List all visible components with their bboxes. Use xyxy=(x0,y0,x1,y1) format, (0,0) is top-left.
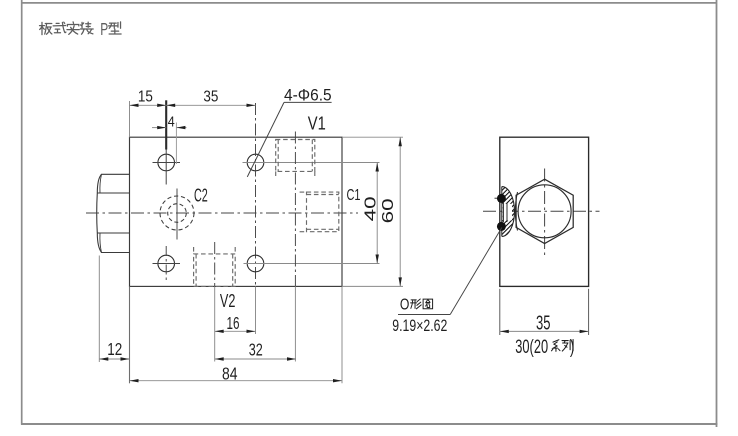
port C1 dashed bore xyxy=(300,192,339,232)
end view centerlines xyxy=(483,210,600,212)
valve block outline xyxy=(130,137,343,286)
svg-text:C2: C2 xyxy=(194,185,208,205)
svg-text:O: O xyxy=(400,296,410,313)
dimension 32 xyxy=(215,358,296,360)
dimension 4 xyxy=(152,127,166,129)
port V1 dashed bore xyxy=(276,140,315,179)
svg-text:40: 40 xyxy=(363,196,380,221)
dimension 12 xyxy=(99,358,129,360)
end view body xyxy=(500,137,589,286)
dimension 35 xyxy=(166,104,175,107)
main horizontal centerline xyxy=(86,212,358,214)
leader O形圈 9.19×2.62 xyxy=(450,228,502,315)
svg-text:30(20: 30(20 xyxy=(515,336,548,358)
port C2 dashed circles xyxy=(160,196,194,230)
svg-text:4: 4 xyxy=(168,114,175,131)
title 板式安装 P型 xyxy=(40,22,52,34)
dimension 40 xyxy=(376,163,378,264)
V1 centerline xyxy=(294,132,296,287)
svg-text:84: 84 xyxy=(222,364,238,384)
hole top-right xyxy=(247,154,264,171)
V2 centerline xyxy=(214,242,216,286)
svg-text:15: 15 xyxy=(138,88,153,105)
dimension 16 xyxy=(215,330,256,332)
dimension 35 (end view) xyxy=(499,289,501,335)
svg-text:32: 32 xyxy=(249,340,263,360)
hex plug side view xyxy=(97,174,130,252)
dimension 15 xyxy=(130,104,256,106)
svg-text:35: 35 xyxy=(536,312,551,334)
svg-text:V2: V2 xyxy=(220,291,236,311)
hex plug end view xyxy=(516,179,573,243)
hole top-left xyxy=(158,154,175,171)
port V2 dashed bore xyxy=(194,247,236,286)
svg-text:9.19×2.62: 9.19×2.62 xyxy=(392,317,447,335)
svg-text:P: P xyxy=(100,19,108,39)
svg-text:35: 35 xyxy=(203,88,218,105)
svg-text:12: 12 xyxy=(107,339,122,359)
svg-text:C1: C1 xyxy=(347,187,361,204)
dimension 60 xyxy=(342,136,403,138)
svg-text:V1: V1 xyxy=(308,114,326,134)
svg-text:16: 16 xyxy=(227,313,240,333)
hole bottom-right xyxy=(247,255,264,272)
svg-text:): ) xyxy=(570,336,575,358)
svg-text:60: 60 xyxy=(380,198,397,223)
dimension 84 xyxy=(130,380,343,382)
hole bottom-left xyxy=(158,255,175,272)
